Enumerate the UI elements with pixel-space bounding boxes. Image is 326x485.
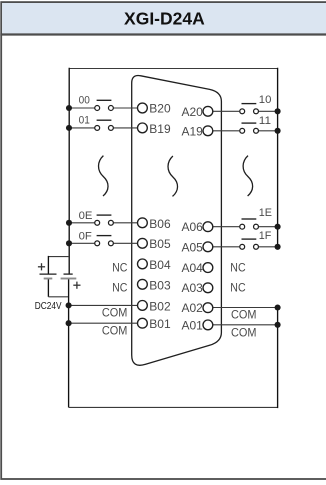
wire row 10: [213, 110, 240, 112]
svg-text:A06: A06: [181, 220, 203, 234]
junction node DC24V: [66, 302, 72, 308]
wire COM B02: [69, 304, 138, 306]
svg-text:00: 00: [79, 94, 90, 106]
wire DC24V vertical: [68, 279, 70, 408]
svg-text:COM: COM: [231, 310, 257, 322]
junction node 1F: [275, 244, 281, 250]
wire bottom rail: [69, 406, 278, 408]
wire right input bus: [277, 68, 279, 247]
svg-text:COM: COM: [231, 328, 257, 340]
break squiggle right: [243, 156, 253, 196]
battery BT2 plus: [73, 282, 80, 289]
switch contact 1E: [240, 219, 259, 229]
svg-text:A19: A19: [181, 124, 203, 138]
pin B06: [138, 218, 148, 228]
svg-text:B19: B19: [149, 122, 171, 136]
svg-text:A20: A20: [181, 105, 203, 119]
wire COM A02: [213, 307, 278, 309]
junction node COM A01: [275, 322, 281, 328]
wire row 0F: [69, 242, 95, 244]
svg-text:NC: NC: [112, 262, 127, 274]
switch contact 11: [240, 123, 259, 133]
wire row 1E: [213, 226, 240, 228]
wire battery branch rail: [48, 256, 69, 258]
pin B05: [138, 238, 148, 248]
switch contact 1F: [240, 239, 259, 249]
wire row 01: [69, 127, 95, 129]
wire COM B01: [69, 322, 138, 324]
header bottom border: [0, 33, 326, 35]
switch contact 10: [240, 104, 259, 114]
svg-text:XGI-D24A: XGI-D24A: [124, 8, 205, 28]
svg-text:B20: B20: [149, 102, 171, 116]
junction node 0E: [66, 220, 72, 226]
battery BT2 plates: [61, 274, 77, 278]
switch contact 0E: [95, 215, 114, 225]
wire left battery bottom stub: [47, 279, 49, 297]
break squiggle left: [99, 156, 109, 196]
svg-text:A05: A05: [181, 240, 203, 254]
svg-text:B02: B02: [149, 299, 171, 313]
wire battery bottom rail: [48, 296, 68, 298]
connector outline U1: [132, 76, 222, 366]
battery BT1 plus: [38, 263, 45, 270]
svg-text:A01: A01: [181, 318, 203, 332]
pin A02: [203, 303, 213, 313]
wire left battery top stub: [47, 256, 49, 274]
junction node 11: [275, 128, 281, 134]
pin A04: [203, 263, 213, 273]
pin A06: [203, 222, 213, 232]
svg-text:COM: COM: [102, 307, 128, 319]
switch contact 01: [95, 120, 114, 130]
pin A03: [203, 283, 213, 293]
svg-text:A03: A03: [181, 281, 203, 295]
svg-text:01: 01: [79, 115, 90, 127]
pin B20: [138, 103, 148, 113]
svg-text:B01: B01: [149, 317, 171, 331]
svg-text:COM: COM: [102, 326, 128, 338]
svg-text:0E: 0E: [79, 210, 93, 222]
junction node 0F: [66, 240, 72, 246]
junction node 10: [275, 108, 281, 114]
svg-text:1E: 1E: [259, 207, 272, 219]
wire COM A01: [213, 324, 278, 326]
pin A19: [203, 126, 213, 136]
pin A20: [203, 106, 213, 116]
wire right COM bus: [277, 308, 279, 409]
pin A01: [203, 320, 213, 330]
pin B01: [138, 318, 148, 328]
pin B03: [138, 279, 148, 289]
svg-text:DC24V: DC24V: [35, 301, 62, 312]
svg-text:NC: NC: [230, 262, 245, 274]
svg-text:NC: NC: [112, 282, 127, 294]
svg-text:1F: 1F: [259, 230, 272, 242]
junction node COM A02: [275, 304, 281, 310]
wire row 00: [69, 107, 95, 109]
svg-text:10: 10: [259, 94, 272, 106]
wire row 0E: [69, 222, 95, 224]
svg-text:A04: A04: [181, 261, 203, 275]
svg-text:NC: NC: [230, 282, 245, 294]
wire top rail: [69, 68, 278, 70]
junction node COM B01: [66, 320, 72, 326]
switch contact 00: [95, 100, 114, 110]
pin B19: [138, 123, 148, 133]
svg-text:B03: B03: [149, 278, 171, 292]
wire left input bus: [68, 68, 70, 274]
wire row 11: [213, 130, 240, 132]
svg-text:11: 11: [259, 115, 271, 127]
svg-text:B05: B05: [149, 237, 171, 251]
svg-text:0F: 0F: [79, 230, 92, 242]
wire row 1F: [213, 246, 240, 248]
switch contact 0F: [95, 236, 114, 246]
svg-text:B04: B04: [149, 258, 171, 272]
pin B04: [138, 259, 148, 269]
junction node 01: [66, 125, 72, 131]
header cell XGI-D24A: [2, 3, 326, 34]
battery BT1 plates: [40, 274, 57, 278]
pin A05: [203, 242, 213, 252]
junction node 00: [66, 105, 72, 111]
svg-text:A02: A02: [181, 301, 203, 315]
pin B02: [138, 301, 148, 311]
junction node 1E: [275, 224, 281, 230]
svg-text:B06: B06: [149, 217, 171, 231]
break squiggle middle: [168, 156, 178, 196]
